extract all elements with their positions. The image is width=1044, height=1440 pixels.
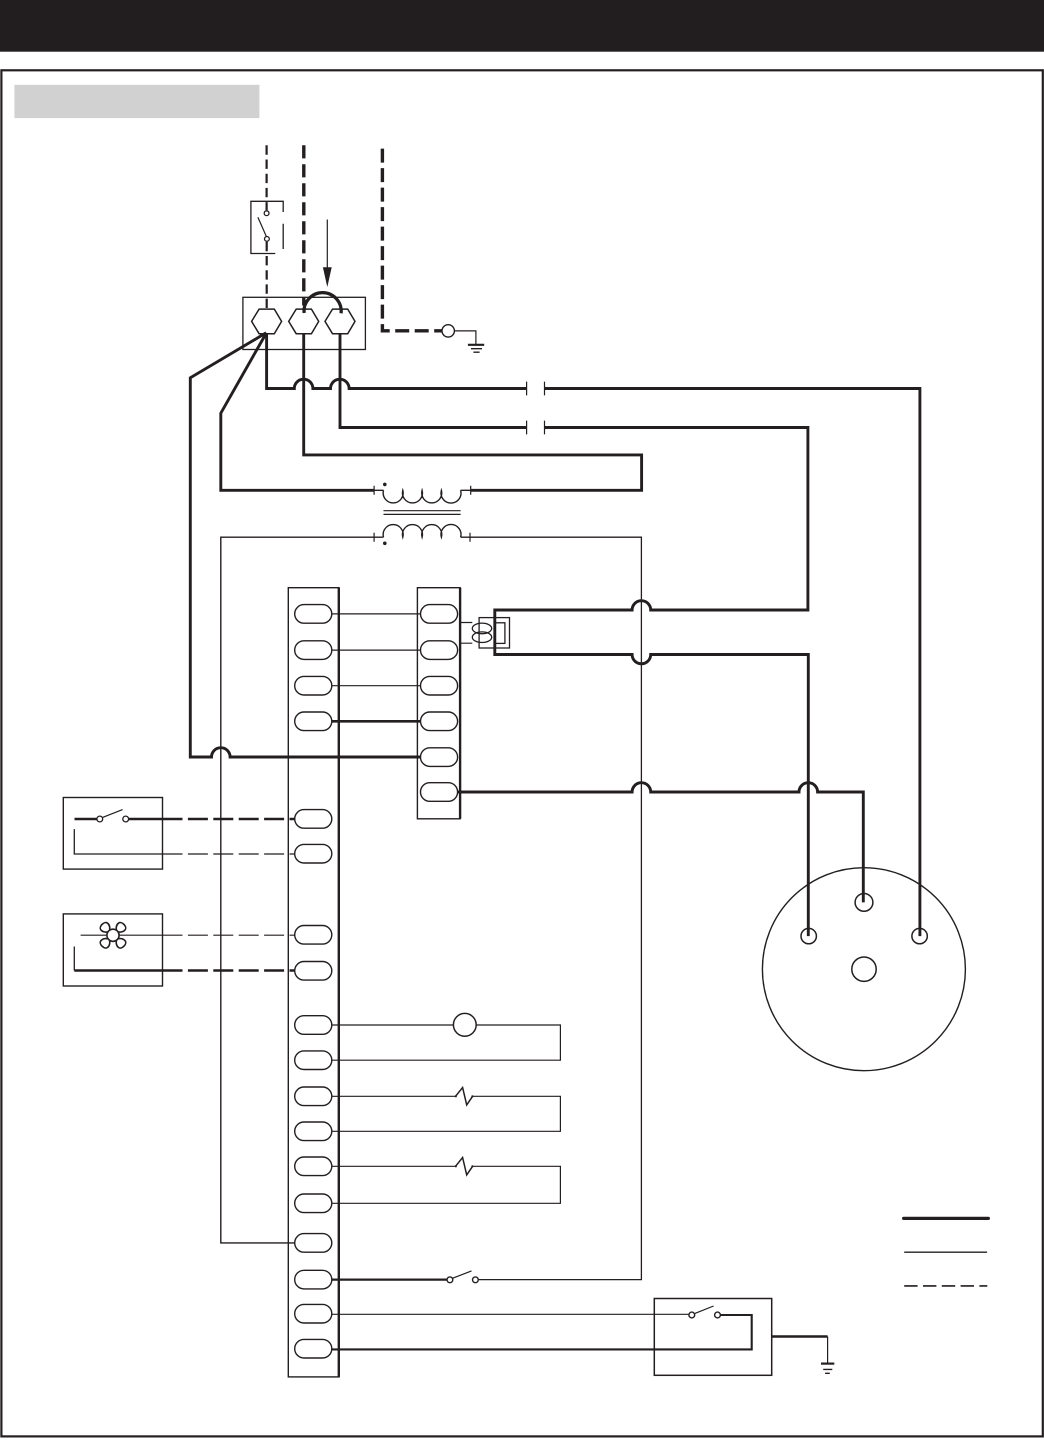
fan return L [73,947,75,971]
connector strip CN1 body [288,588,339,1377]
connector strip CN2 terminals [421,605,458,802]
fan box B2 [63,914,162,986]
ground G1 circle terminal [442,325,454,337]
wire: hex1 diagonal to left rail down to connector CN2 pin 5 [190,333,421,757]
transformer T1 core [384,511,461,515]
igniter leads from CN2 [460,623,472,644]
wire: hex1 down and right to motor right terminal [267,333,527,389]
wire: secondary left lead down to CN1 pin 15 [221,537,384,1243]
transformer T1 secondary lead ticks [374,533,470,542]
door switch return L [74,829,162,854]
switch S3 [689,1312,695,1318]
jumper arc TB2-TB3 [304,293,341,314]
wire CN1-1 to CN2-1 [332,613,421,615]
transformer T1 primary polarity dot [383,483,387,487]
transformer T1 primary winding [383,490,461,503]
legend thick line [904,1217,989,1220]
motor M1 shaft [852,957,876,981]
dashed wire box B1 to CN1-5 [163,818,295,821]
wire: secondary right lead down to switch S2 [461,537,642,1279]
lamp [453,1013,476,1036]
legend dashed line [904,1285,987,1287]
door switch box B1 [63,798,162,870]
wire S3 to CN1-18 [332,1315,752,1349]
wire: plug P1 to motor right terminal [545,389,920,937]
lamp loop CN1-9 to CN1-10 [332,1025,561,1060]
wire CN2-6 to motor top terminal [457,783,863,903]
switch S1 contacts [264,211,269,216]
dashed wire box B1 to CN1-6 [163,853,295,855]
igniter body [479,618,509,648]
connector strip CN1 terminals [295,605,332,1358]
motor M1 top terminal [855,894,873,912]
disconnect plug P1 [527,382,545,396]
arrow indicator [326,220,328,268]
wire CN1-4 to CN2-4 [332,720,421,723]
transformer T1 secondary winding [383,524,461,537]
connector strip CN2 body [417,588,460,819]
wire: hex1 diagonal to transformer primary left lead [221,333,374,490]
terminal TB2 hex [289,309,319,334]
heater element R1 [456,1088,473,1105]
terminal TB3 hex [325,309,355,334]
switch S2 lead from CN1-16 [332,1278,447,1280]
header bar [0,0,1044,52]
wire: hex3 down and right to plug P2 [340,333,527,428]
disconnect plug P2 [527,421,545,435]
transformer T1 secondary polarity dot [383,542,387,546]
supply line L1 (dashed wire) [266,145,268,210]
transformer T1 primary lead ticks [374,486,471,495]
supply line L3 (dashed wire) [382,149,441,331]
igniter coil [472,623,491,634]
wire CN1-3 to CN2-3 [332,685,421,687]
ground G2 [821,1362,834,1364]
switch S2 [447,1277,453,1283]
motor M1 body [762,868,965,1071]
interlock box B3 [654,1299,771,1376]
legend thin line [904,1251,987,1253]
heater element R2 [456,1158,473,1175]
wire CN1-17 to box B3 switch [332,1313,689,1315]
supply line L2 (dashed wire) [302,145,305,305]
dashed wire box B2 to CN1-7 [163,934,295,936]
switch S1 blade [258,217,267,236]
motor M1 left terminal [801,928,816,943]
door switch line [75,818,97,820]
wire: hex2 down and right to transformer primary right lead [304,333,642,490]
wire: plug P2 through igniter to motor left terminal [495,428,809,937]
dashed wire box B2 to CN1-8 [163,969,295,972]
terminal block TB [243,297,366,349]
title placeholder [14,85,259,118]
switch S1 enclosure [251,201,283,253]
ground G1 [454,331,476,345]
wire CN1-2 to CN2-2 [332,649,421,651]
wire box B3 to ground G2 [772,1335,828,1337]
fan line [81,934,163,936]
heater loop CN1-11 to CN1-12 [332,1096,561,1131]
fan motor icon [99,921,128,950]
motor M1 right terminal [912,928,927,943]
terminal TB1 hex [252,309,282,334]
heater loop CN1-13 to CN1-14 [332,1166,561,1203]
